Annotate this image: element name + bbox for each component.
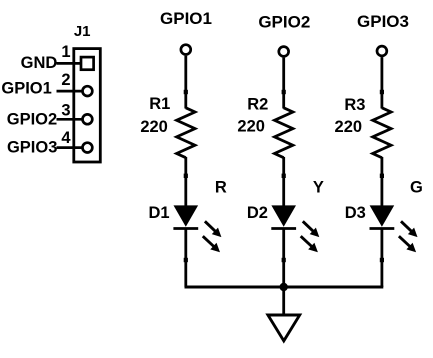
svg-text:D1: D1 <box>148 204 169 222</box>
svg-text:R2: R2 <box>247 95 268 113</box>
svg-text:R1: R1 <box>149 95 170 113</box>
svg-text:D2: D2 <box>247 204 268 222</box>
svg-text:220: 220 <box>140 118 168 136</box>
svg-text:J1: J1 <box>74 23 91 40</box>
svg-text:3: 3 <box>61 101 70 119</box>
svg-text:2: 2 <box>61 71 70 89</box>
svg-text:GPIO3: GPIO3 <box>7 138 57 156</box>
svg-text:GPIO1: GPIO1 <box>160 9 212 28</box>
svg-text:1: 1 <box>61 43 70 61</box>
svg-text:GPIO2: GPIO2 <box>258 13 310 32</box>
svg-text:220: 220 <box>335 118 363 136</box>
svg-text:GPIO3: GPIO3 <box>357 12 409 31</box>
svg-text:220: 220 <box>237 118 265 136</box>
svg-text:D3: D3 <box>345 204 366 222</box>
svg-text:GPIO2: GPIO2 <box>7 110 57 128</box>
svg-text:GPIO1: GPIO1 <box>1 80 51 98</box>
svg-text:Y: Y <box>313 179 324 197</box>
svg-text:GND: GND <box>21 54 58 72</box>
svg-text:G: G <box>410 179 423 197</box>
svg-text:4: 4 <box>61 129 71 147</box>
svg-text:R: R <box>215 179 227 197</box>
svg-text:R3: R3 <box>344 96 365 114</box>
